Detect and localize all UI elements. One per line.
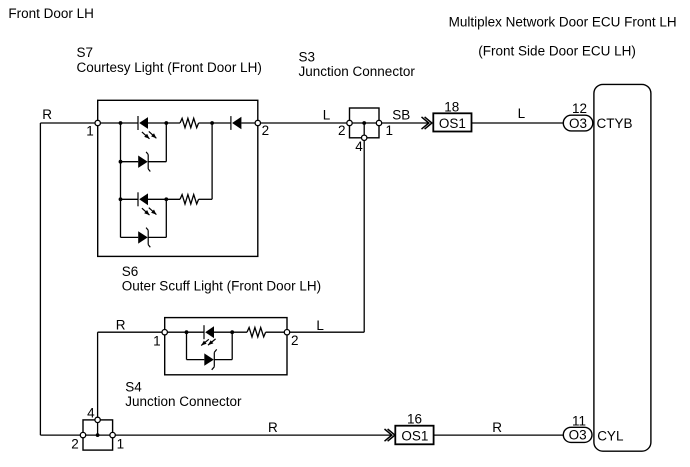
svg-text:11: 11 — [572, 414, 586, 429]
svg-text:Outer Scuff Light (Front Door: Outer Scuff Light (Front Door LH) — [122, 279, 321, 294]
svg-text:S6: S6 — [122, 264, 139, 279]
svg-text:R: R — [42, 107, 52, 122]
svg-text:R: R — [268, 420, 278, 435]
svg-text:CYL: CYL — [597, 428, 624, 443]
svg-text:1: 1 — [86, 123, 94, 138]
svg-text:SB: SB — [392, 108, 410, 123]
svg-text:O3: O3 — [569, 116, 587, 131]
svg-text:OS1: OS1 — [439, 116, 466, 131]
svg-text:4: 4 — [355, 139, 363, 154]
svg-text:(Front Side Door ECU LH): (Front Side Door ECU LH) — [478, 44, 636, 59]
svg-text:OS1: OS1 — [401, 428, 428, 443]
svg-text:S4: S4 — [125, 379, 142, 394]
svg-text:18: 18 — [444, 99, 459, 114]
svg-text:O3: O3 — [569, 428, 587, 443]
svg-text:1: 1 — [153, 333, 161, 348]
svg-text:2: 2 — [262, 123, 270, 138]
svg-text:2: 2 — [291, 333, 299, 348]
svg-text:R: R — [116, 318, 126, 333]
svg-text:S3: S3 — [299, 50, 316, 65]
svg-text:CTYB: CTYB — [597, 116, 633, 131]
svg-text:4: 4 — [87, 406, 95, 421]
svg-text:S7: S7 — [77, 45, 94, 60]
svg-text:Multiplex Network Door ECU Fro: Multiplex Network Door ECU Front LH — [449, 15, 677, 30]
svg-text:1: 1 — [386, 123, 394, 138]
svg-text:Junction Connector: Junction Connector — [125, 394, 242, 409]
svg-text:L: L — [518, 106, 526, 121]
svg-text:16: 16 — [407, 411, 422, 426]
svg-text:2: 2 — [338, 123, 346, 138]
svg-text:R: R — [492, 420, 502, 435]
svg-text:12: 12 — [572, 101, 587, 116]
svg-text:L: L — [316, 318, 324, 333]
svg-text:2: 2 — [71, 437, 79, 452]
svg-text:Courtesy Light (Front Door LH): Courtesy Light (Front Door LH) — [77, 60, 262, 75]
svg-text:L: L — [323, 107, 331, 122]
svg-text:1: 1 — [117, 437, 125, 452]
svg-text:Junction Connector: Junction Connector — [299, 64, 416, 79]
svg-text:Front Door LH: Front Door LH — [8, 6, 94, 21]
